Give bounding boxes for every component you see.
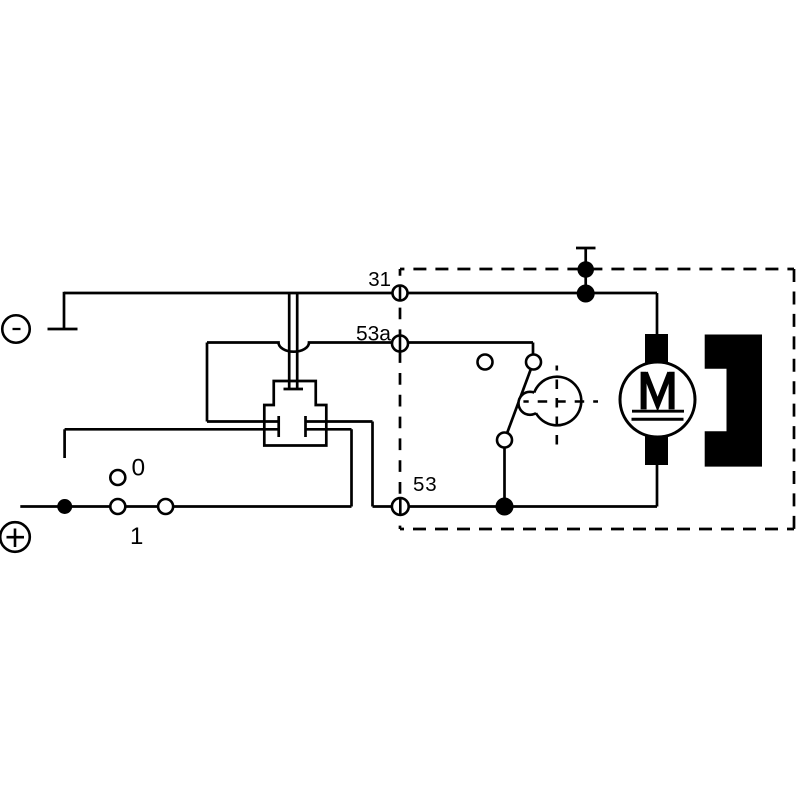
- svg-text:31: 31: [368, 268, 391, 291]
- svg-text:0: 0: [131, 455, 145, 482]
- svg-text:53: 53: [413, 473, 437, 496]
- svg-text:1: 1: [130, 523, 143, 550]
- svg-text:53a: 53a: [356, 323, 391, 346]
